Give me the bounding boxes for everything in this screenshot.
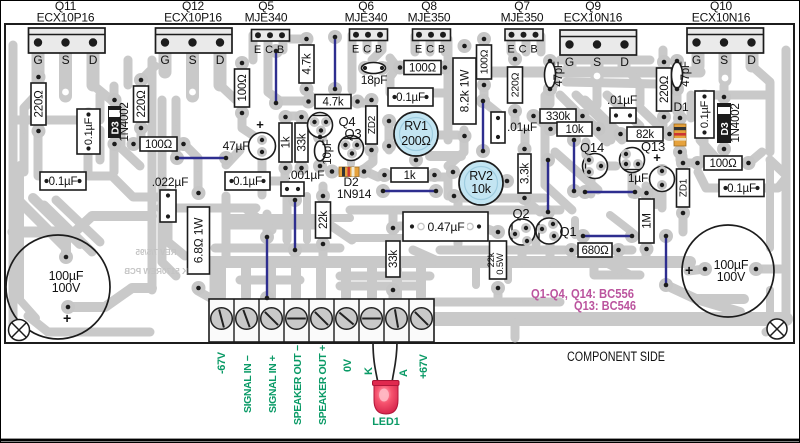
resistor 220ohm (Q10) (657, 68, 672, 111)
svg-text:4.7k: 4.7k (301, 53, 313, 74)
wire link W9 (585, 191, 635, 193)
svg-text:A: A (398, 369, 410, 377)
capacitor 10pF (315, 141, 326, 161)
svg-text:E: E (507, 44, 514, 56)
svg-text:Q2: Q2 (513, 206, 530, 221)
capacitor 100uF 100V (left) (6, 235, 110, 339)
via holes (62, 89, 69, 96)
svg-text:330k: 330k (546, 111, 571, 123)
svg-text:ZD2: ZD2 (367, 115, 378, 134)
capacitor .001uF (281, 182, 304, 196)
svg-text:SPEAKER OUT −: SPEAKER OUT − (292, 345, 304, 425)
svg-text:1N914: 1N914 (337, 187, 372, 201)
wire link W8 (573, 140, 575, 191)
resistor 4.7k vert (299, 45, 314, 83)
svg-text:100Ω: 100Ω (145, 139, 173, 151)
svg-text:47pF: 47pF (680, 61, 692, 87)
svg-text:G: G (565, 55, 574, 69)
svg-text:100Ω: 100Ω (478, 49, 490, 74)
svg-text:E: E (352, 44, 359, 56)
wire link W6 (294, 200, 296, 250)
svg-text:RV2: RV2 (469, 169, 493, 183)
svg-text:18pF: 18pF (361, 73, 388, 87)
svg-text:0.1µF: 0.1µF (727, 183, 756, 195)
svg-text:100V: 100V (717, 270, 746, 284)
svg-text:S: S (720, 53, 728, 67)
mirrored pcb rev text (135, 248, 176, 257)
transistor Q1 (536, 218, 562, 244)
resistor 22k (316, 202, 331, 238)
wire link W11 (665, 236, 667, 285)
resistor 100ohm vert (Q8) (477, 45, 492, 79)
svg-text:ECX10N16: ECX10N16 (564, 11, 623, 25)
svg-text:1N4002: 1N4002 (119, 102, 131, 141)
capacitor 47pF (Q9) (545, 62, 556, 88)
svg-text:0.1µF: 0.1µF (699, 100, 711, 128)
capacitor 0.1uF vert (right) (695, 91, 714, 138)
wire link W10 (583, 235, 632, 237)
svg-text:Q3: Q3 (345, 126, 362, 141)
svg-text:+: + (63, 310, 71, 326)
resistor 8.2k 1W (453, 58, 476, 124)
svg-text:D: D (216, 53, 225, 67)
PCB board outline (5, 24, 794, 343)
resistor R 220ohm (left of Q11) (31, 83, 46, 125)
resistor 3.3k (518, 154, 531, 193)
svg-text:G: G (33, 53, 42, 67)
diode D1 (674, 124, 686, 146)
svg-text:33k: 33k (388, 250, 400, 268)
svg-text:100Ω: 100Ω (710, 158, 738, 170)
svg-text:COMPONENT SIDE: COMPONENT SIDE (567, 349, 665, 364)
svg-text:200Ω: 200Ω (401, 134, 430, 148)
resistor 100ohm horiz (top mid) (404, 61, 441, 75)
svg-text:47pF: 47pF (553, 61, 565, 87)
svg-text:D1: D1 (674, 100, 689, 114)
svg-text:.01µF: .01µF (607, 93, 637, 107)
transistor Q4 (308, 113, 333, 138)
transistor package Q10 (687, 28, 764, 53)
svg-text:G: G (692, 53, 701, 67)
mounting hole right (767, 319, 787, 339)
LED1 leads (373, 342, 378, 383)
transistor Q14 (583, 154, 608, 179)
svg-text:C: C (265, 44, 273, 56)
svg-text:MJE340: MJE340 (345, 11, 388, 25)
svg-text:K: K (363, 367, 375, 375)
resistor 100ohm vert (Q12/Q5) (235, 69, 250, 107)
svg-text:D3: D3 (719, 122, 731, 135)
lead dots (36, 35, 759, 310)
svg-text:0.47µF: 0.47µF (428, 220, 465, 234)
svg-text:E: E (254, 44, 261, 56)
resistor 33k (bottom) (386, 241, 400, 277)
svg-text:1N4002: 1N4002 (730, 103, 742, 142)
capacitor 47uF (249, 133, 276, 160)
transistor package Q12 (156, 28, 233, 53)
svg-text:REV 7/5/95: REV 7/5/95 (135, 248, 176, 257)
capacitor .01uF (right) (610, 108, 636, 123)
capacitor 100uF 100V (right) (682, 225, 774, 317)
svg-text:220Ω: 220Ω (509, 72, 521, 97)
zener ZD1 (677, 169, 690, 207)
svg-text:E: E (415, 44, 422, 56)
copper traces (gray) (13, 35, 786, 338)
capacitor 0.47uF (403, 212, 488, 241)
zener ZD2 (366, 106, 378, 144)
resistor 1M (639, 199, 654, 243)
transistor package Q9 (560, 30, 637, 55)
capacitor 0.1uF horiz (top) (388, 88, 433, 106)
svg-text:100V: 100V (52, 281, 81, 295)
svg-text:Q13: BC546: Q13: BC546 (574, 299, 636, 313)
svg-text:1k: 1k (280, 136, 292, 148)
capacitor 0.1uF horiz (right) (719, 180, 764, 197)
svg-text:B: B (375, 44, 382, 56)
transistor package Q6 (350, 29, 388, 41)
svg-text:1k: 1k (404, 170, 416, 182)
wire link W7 (547, 160, 549, 212)
resistor 22k 0.5W (490, 241, 507, 279)
svg-text:C: C (426, 44, 434, 56)
svg-text:D: D (620, 55, 629, 69)
svg-text:S: S (593, 55, 601, 69)
capacitor 0.1uF horiz (mid-left) (225, 172, 270, 190)
capacitor 18pF (362, 63, 386, 74)
wire link W5 (482, 101, 484, 151)
svg-text:0.1µF: 0.1µF (83, 117, 95, 145)
resistor 330k (540, 109, 576, 123)
svg-text:+: + (653, 150, 661, 165)
svg-text:ECX10P16: ECX10P16 (37, 11, 95, 25)
svg-text:MJE340: MJE340 (245, 11, 288, 25)
pads (32, 30, 765, 314)
svg-text:Q14: Q14 (580, 140, 604, 155)
transistor package Q11 (29, 28, 106, 53)
svg-text:B: B (438, 44, 445, 56)
svg-text:D: D (747, 53, 756, 67)
wire link W2 (334, 37, 336, 89)
transistor Q3 (339, 136, 364, 161)
svg-text:RV1: RV1 (404, 119, 428, 133)
svg-text:0.5W: 0.5W (495, 253, 506, 275)
svg-text:47µF: 47µF (223, 139, 250, 153)
resistor 1k vert (279, 123, 292, 162)
svg-text:1µF: 1µF (628, 171, 648, 185)
svg-text:K 5170REW PCB: K 5170REW PCB (124, 267, 188, 276)
diode D3 1N4002 (left) (108, 106, 121, 138)
svg-text:ECX10N16: ECX10N16 (692, 11, 751, 25)
svg-text:22k: 22k (318, 211, 330, 229)
trimpot RV2 10k (459, 161, 503, 205)
resistor 100ohm horiz (left) (140, 137, 177, 151)
svg-text:0.1µF: 0.1µF (396, 92, 425, 104)
svg-text:+67V: +67V (418, 354, 430, 379)
capacitor 0.1uF vert (left) (77, 109, 100, 154)
resistor 220ohm (Q7) (508, 67, 523, 103)
svg-text:10k: 10k (471, 182, 492, 196)
wire link W12 (383, 190, 436, 192)
transistor package Q5 (252, 30, 290, 42)
svg-text:SIGNAL IN −: SIGNAL IN − (242, 355, 254, 413)
svg-text:MJE350: MJE350 (501, 11, 544, 25)
resistor 220ohm (right, by D3) (134, 86, 149, 122)
svg-text:ECX10P16: ECX10P16 (164, 11, 222, 25)
capacitor 47pF (Q10) (672, 62, 683, 88)
svg-text:LED1: LED1 (372, 416, 400, 428)
svg-text:MJE350: MJE350 (408, 11, 451, 25)
svg-text:S: S (62, 53, 70, 67)
transistor Q13 (620, 148, 645, 173)
resistor 4.7k horiz (315, 95, 351, 109)
svg-text:33k: 33k (296, 133, 308, 151)
wire link W4 (266, 237, 268, 298)
capacitor .01uF (mid) (491, 112, 505, 143)
svg-text:C: C (519, 44, 527, 56)
svg-text:Q1: Q1 (560, 224, 577, 239)
capacitor 1uF (650, 167, 675, 192)
svg-text:0V: 0V (342, 358, 354, 372)
capacitor .022uF (160, 190, 176, 222)
svg-text:10pF: 10pF (322, 139, 334, 165)
svg-text:220Ω: 220Ω (33, 90, 45, 118)
svg-text:1M: 1M (641, 213, 653, 229)
svg-text:.022µF: .022µF (152, 175, 188, 189)
svg-text:0.1µF: 0.1µF (233, 176, 262, 188)
svg-text:6.8Ω 1W: 6.8Ω 1W (191, 217, 205, 263)
svg-text:G: G (160, 53, 169, 67)
diode D2 1N914 (339, 167, 359, 177)
svg-text:.01µF: .01µF (507, 120, 537, 134)
svg-text:ZD1: ZD1 (678, 178, 689, 197)
svg-text:10k: 10k (566, 124, 584, 136)
resistor 82k (627, 127, 663, 141)
svg-text:SIGNAL IN +: SIGNAL IN + (267, 355, 279, 413)
resistor 33k vert (295, 123, 308, 162)
svg-text:D: D (89, 53, 98, 67)
wire link W3 (177, 157, 226, 159)
svg-text:4.7k: 4.7k (323, 96, 344, 108)
svg-text:680Ω: 680Ω (582, 245, 610, 257)
svg-text:B: B (530, 44, 537, 56)
resistor 680ohm (578, 243, 612, 257)
svg-text:+: + (256, 117, 264, 132)
mounting hole left (9, 320, 30, 341)
svg-text:+: + (685, 262, 693, 278)
svg-text:S: S (189, 53, 197, 67)
svg-text:SPEAKER OUT +: SPEAKER OUT + (317, 345, 329, 425)
diode D3 1N4002 (right) (717, 103, 731, 143)
svg-text:.001µF: .001µF (288, 168, 324, 182)
resistor 10k (557, 122, 592, 136)
capacitor 0.1uF horiz (far left) (40, 172, 86, 190)
transistor package Q7 (505, 29, 543, 41)
resistor 6.8ohm 1W (188, 207, 210, 274)
svg-text:3.3k: 3.3k (519, 163, 531, 184)
svg-text:100Ω: 100Ω (409, 62, 437, 74)
svg-text:100Ω: 100Ω (237, 74, 249, 102)
transistor Q2 (509, 219, 535, 245)
svg-text:220Ω: 220Ω (136, 90, 148, 118)
svg-text:0.1µF: 0.1µF (49, 176, 78, 188)
svg-text:-67V: -67V (216, 351, 228, 374)
resistor 100ohm horiz (right) (704, 156, 742, 170)
svg-text:220Ω: 220Ω (659, 75, 671, 103)
svg-text:8.2k 1W: 8.2k 1W (457, 69, 471, 112)
terminal block (209, 299, 434, 342)
wire link W1 (275, 51, 277, 103)
svg-text:C: C (363, 44, 371, 56)
transistor package Q8 (413, 29, 451, 41)
trimpot RV1 200ohm (394, 112, 438, 156)
resistor 1k horiz (391, 168, 428, 182)
